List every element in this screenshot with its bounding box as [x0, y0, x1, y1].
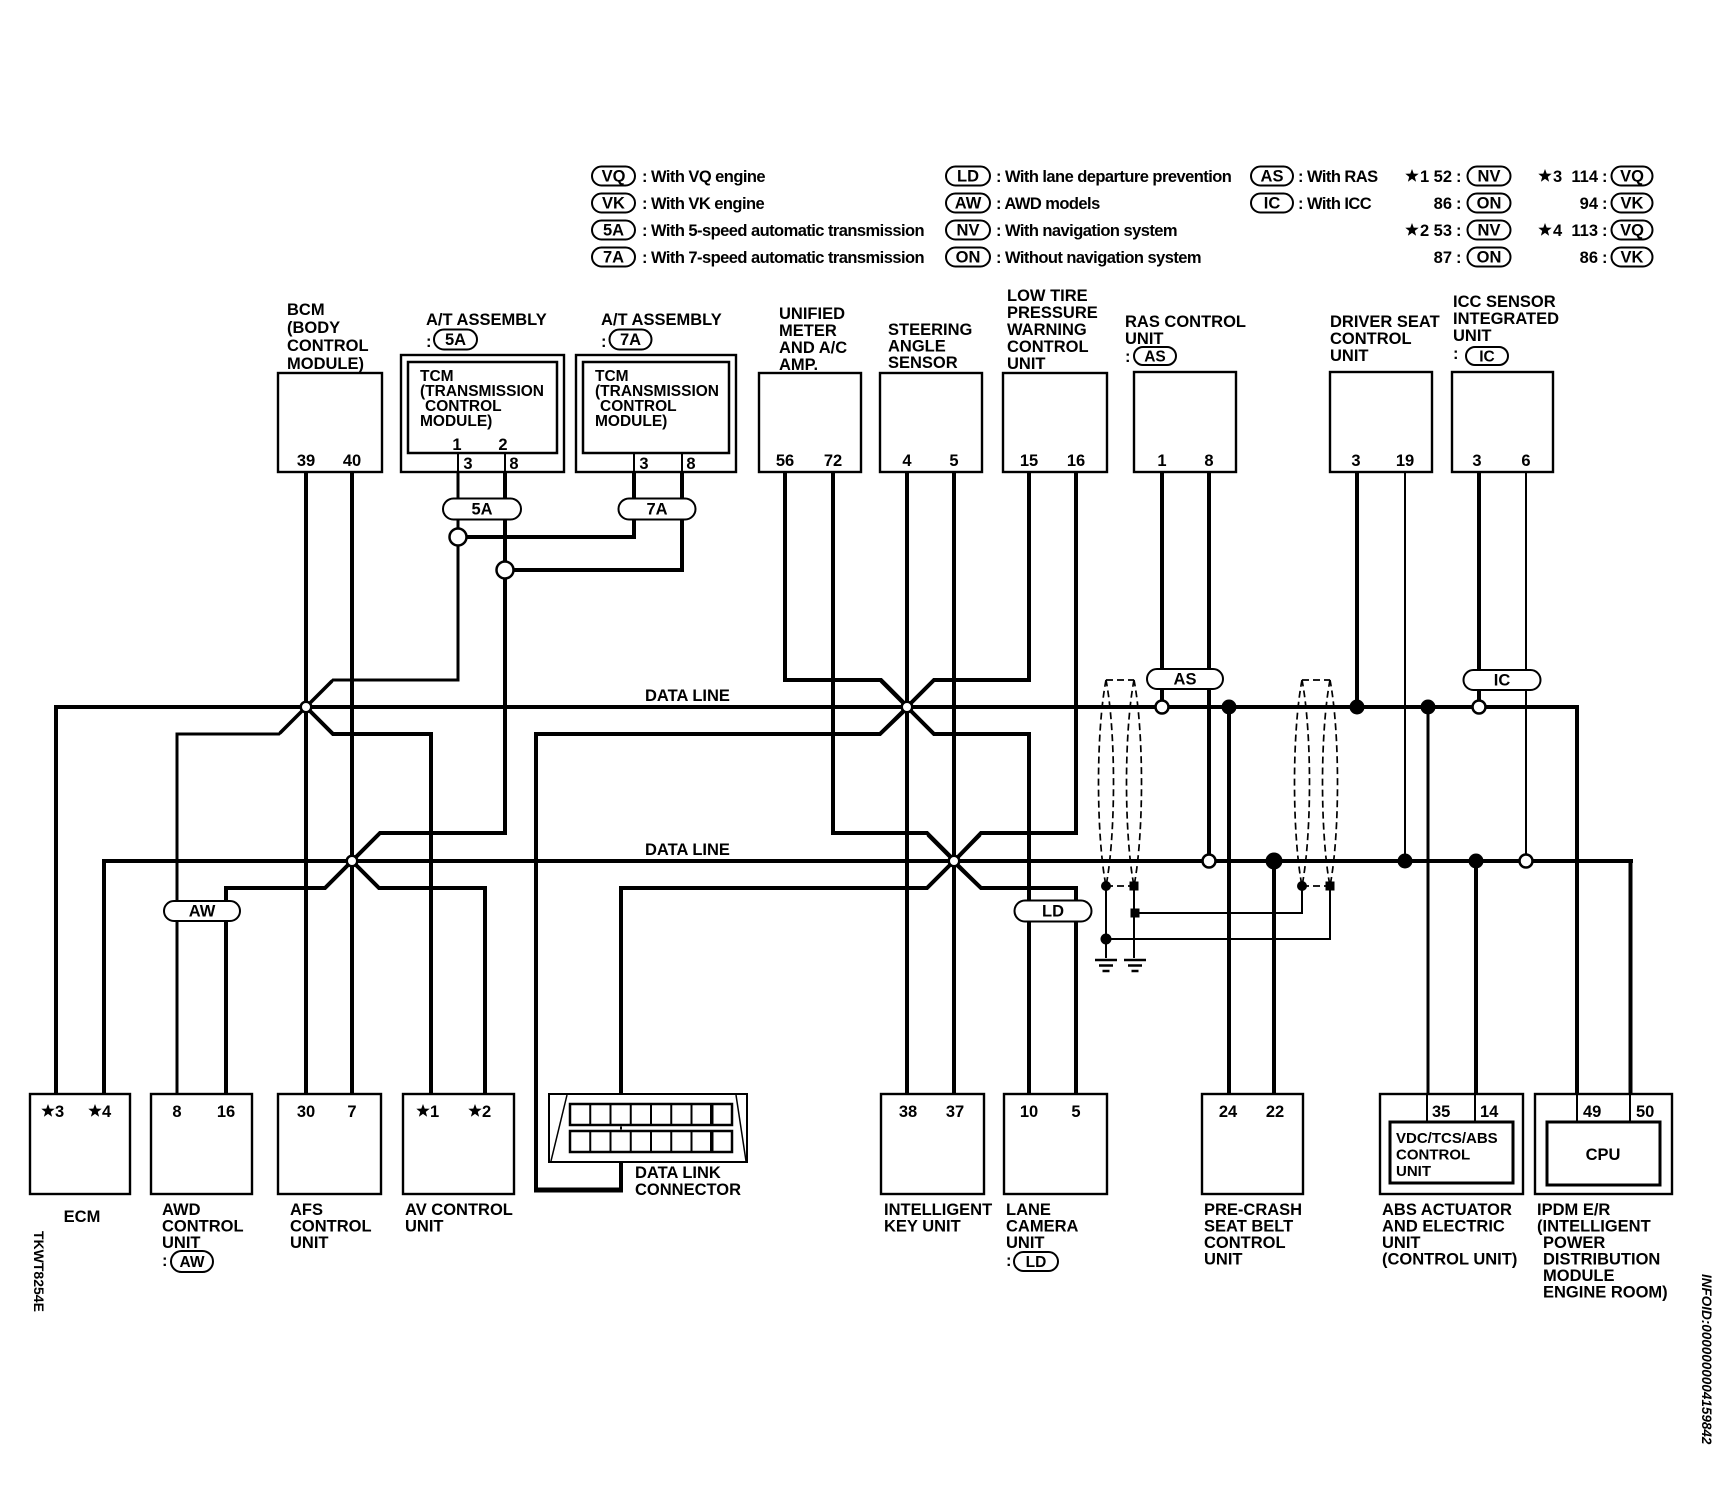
svg-text:NV: NV	[1478, 222, 1501, 240]
svg-text:2: 2	[498, 436, 507, 454]
component PRE-CRASH SEAT BELT CONTROL UNIT	[1202, 1094, 1303, 1269]
svg-text::: :	[1456, 222, 1462, 240]
svg-text:UNIT: UNIT	[162, 1234, 201, 1252]
svg-text:113: 113	[1571, 222, 1598, 240]
junction J2 on data line 2 (BCM/TCM/AWD/AV)	[326, 835, 378, 887]
svg-text:DATA LINE: DATA LINE	[645, 841, 730, 859]
legend note *3 114:VQ 94:VK	[1538, 167, 1652, 214]
svg-text:CONNECTOR: CONNECTOR	[635, 1181, 741, 1199]
component ICC SENSOR INTEGRATED UNIT :IC	[1452, 293, 1559, 472]
svg-text:8: 8	[1204, 452, 1213, 470]
wire J2 lower-left branch to AWD pin 16 (through AW oval)	[226, 863, 350, 1094]
wire J2 lower-right branch to AV pin *2	[354, 863, 485, 1094]
node ABS pin 14 solder dot on data line 2	[1469, 854, 1484, 869]
svg-text:3: 3	[55, 1103, 64, 1121]
svg-text:1: 1	[1157, 452, 1166, 470]
svg-text:38: 38	[899, 1103, 917, 1121]
wire data line 1 right end down to IPDM pin 49	[1575, 705, 1579, 1094]
svg-text:: With VQ engine: : With VQ engine	[642, 168, 765, 186]
wire RAS pin 8 through AS oval to data line 2	[1207, 472, 1211, 857]
wire STEERING ANGLE SENSOR pin 4 through J3 to INTELLIGENT KEY pin 38	[905, 472, 909, 1094]
component UNIFIED METER AND A/C AMP.	[759, 305, 861, 472]
svg-text:MODULE: MODULE	[1543, 1267, 1615, 1285]
wire DRIVER SEAT pin 3 to data line 1	[1355, 472, 1359, 707]
label DATA LINE (upper)	[645, 687, 730, 705]
svg-text:4: 4	[1553, 222, 1563, 240]
legend LD: With lane departure prevention	[946, 167, 1232, 187]
svg-text:ECM: ECM	[64, 1208, 101, 1226]
wire TCM(5A) pin 8 down through 5A oval to node N2	[503, 472, 507, 570]
svg-text:CONTROL: CONTROL	[162, 1218, 244, 1236]
wire node N1 down to J1 upper-right branch	[308, 537, 458, 705]
wire shield drain left-left to ground G1	[1105, 886, 1107, 958]
svg-text:AW: AW	[955, 195, 982, 213]
wire shield drain left-right to ground G2	[1133, 886, 1135, 958]
wire J1 lower-left branch to AWD pin 8 (through AW oval)	[177, 709, 304, 1094]
svg-text::: :	[1602, 249, 1608, 267]
svg-text:: With navigation system: : With navigation system	[996, 222, 1177, 240]
wire data line 1 tap down to PRE-CRASH pin 24	[1227, 707, 1231, 1094]
svg-text::: :	[426, 333, 432, 351]
node ICC pin 3 open junction on data line 1	[1473, 701, 1486, 714]
node PRE-CRASH pin 24 solder dot on data line 1	[1222, 700, 1237, 715]
node DRIVER SEAT pin 19 solder dot on data line 2	[1398, 854, 1413, 869]
svg-text:24: 24	[1219, 1103, 1238, 1121]
svg-text:UNIT: UNIT	[405, 1218, 444, 1236]
svg-text:CONTROL: CONTROL	[287, 337, 369, 355]
svg-text:5: 5	[949, 452, 958, 470]
svg-text:A/T ASSEMBLY: A/T ASSEMBLY	[426, 311, 547, 329]
legend ON: Without navigation system	[946, 248, 1201, 268]
svg-text:UNIT: UNIT	[290, 1234, 329, 1252]
node drain square joint at (1135,913)	[1131, 909, 1140, 918]
wire data line 2 left end down to ECM pin *4	[102, 859, 106, 1094]
svg-text:VK: VK	[602, 195, 625, 213]
svg-text:35: 35	[1432, 1103, 1450, 1121]
svg-text:LD: LD	[1026, 1254, 1047, 1271]
svg-text:2: 2	[1420, 222, 1429, 240]
svg-text:UNIT: UNIT	[1330, 347, 1369, 365]
svg-text:(INTELLIGENT: (INTELLIGENT	[1537, 1218, 1651, 1236]
svg-text:DATA LINE: DATA LINE	[645, 687, 730, 705]
svg-text:AS: AS	[1261, 168, 1284, 186]
oval AW on AWD control unit wires	[164, 901, 240, 921]
component IPDM E/R (CPU)	[1535, 1094, 1672, 1302]
svg-text:NV: NV	[1478, 168, 1501, 186]
svg-text:56: 56	[776, 452, 794, 470]
legend AS: With RAS	[1251, 167, 1378, 187]
svg-text:: AWD models: : AWD models	[996, 195, 1100, 213]
component AWD CONTROL UNIT :AW	[151, 1094, 252, 1272]
oval 5A on TCM(5A) wires	[443, 499, 521, 520]
svg-text:(BODY: (BODY	[287, 319, 340, 337]
wire TCM(5A) pin 3 down through 5A oval to node N1	[457, 472, 460, 537]
wire TCM(7A) pin 3 down through 7A oval, left to node N1	[458, 472, 634, 537]
svg-text:PRE-CRASH: PRE-CRASH	[1204, 1201, 1302, 1219]
svg-text:VQ: VQ	[602, 168, 626, 186]
svg-text:: With 5-speed automatic trans: : With 5-speed automatic transmission	[642, 222, 925, 240]
svg-text:WARNING: WARNING	[1007, 321, 1087, 339]
node RAS pin 8 open junction on data line 2	[1203, 855, 1216, 868]
component A/T ASSEMBLY 7A with TCM	[576, 311, 736, 473]
svg-text:UNIFIED: UNIFIED	[779, 305, 845, 323]
svg-text:52: 52	[1434, 168, 1452, 186]
svg-text:4: 4	[102, 1103, 112, 1121]
svg-text:ICC SENSOR: ICC SENSOR	[1453, 293, 1556, 311]
svg-text:UNIT: UNIT	[1204, 1251, 1243, 1269]
wire data line 2 tap down to PRE-CRASH pin 22	[1272, 861, 1276, 1094]
legend note *1 52:NV 86:ON	[1405, 167, 1510, 214]
svg-text:3: 3	[1472, 452, 1481, 470]
svg-text:(CONTROL UNIT): (CONTROL UNIT)	[1382, 1251, 1517, 1269]
svg-text:LD: LD	[1042, 903, 1064, 921]
component DRIVER SEAT CONTROL UNIT	[1330, 313, 1440, 472]
wire RAS pin 1 through AS oval to data line 1	[1160, 472, 1164, 703]
svg-text:16: 16	[1067, 452, 1085, 470]
svg-text:MODULE): MODULE)	[287, 355, 364, 373]
component ECM	[30, 1094, 130, 1226]
svg-text::: :	[1602, 168, 1608, 186]
svg-text:: With lane departure preventi: : With lane departure prevention	[996, 168, 1232, 186]
svg-text:RAS CONTROL: RAS CONTROL	[1125, 313, 1246, 331]
wire BCM pin 39 to junction J1 to AFS pin 30	[304, 472, 308, 1094]
svg-text:CPU: CPU	[1586, 1146, 1621, 1164]
component AFS CONTROL UNIT	[278, 1094, 381, 1252]
junction J4 on data line 2 (meter/steering/low-tire/DLC/lane)	[928, 835, 980, 887]
legend AW: AWD models	[946, 194, 1100, 214]
svg-text:VQ: VQ	[1620, 222, 1644, 240]
svg-text:4: 4	[902, 452, 912, 470]
svg-text:30: 30	[297, 1103, 315, 1121]
shield twisted-pair symbol (right pair, dashed)	[1295, 680, 1338, 886]
svg-text:MODULE): MODULE)	[420, 413, 492, 430]
node ABS pin 35 solder dot on data line 1	[1421, 700, 1436, 715]
oval AS on RAS control unit wires	[1147, 669, 1223, 689]
svg-text:6: 6	[1521, 452, 1530, 470]
svg-text:2: 2	[482, 1103, 491, 1121]
wire J3 lower-left branch to DATA LINK CONNECTOR (left leg)	[536, 710, 905, 1190]
wire node N2 down to J2 upper-right branch	[354, 570, 505, 859]
wire DRIVER SEAT pin 19 to data line 2	[1404, 472, 1406, 861]
svg-text:ON: ON	[1477, 195, 1502, 213]
svg-text:DRIVER SEAT: DRIVER SEAT	[1330, 313, 1440, 331]
wire STEERING ANGLE SENSOR pin 5 through J4 to INTELLIGENT KEY pin 37	[952, 472, 956, 1094]
wire ICC pin 3 through IC oval to data line 1	[1477, 472, 1481, 701]
wire DATA LINK CONNECTOR bottom U link	[534, 1188, 623, 1193]
svg-text:UNIT: UNIT	[1006, 1234, 1045, 1252]
svg-text:CONTROL: CONTROL	[1330, 330, 1412, 348]
svg-text:37: 37	[946, 1103, 964, 1121]
wire BCM pin 40 to junction J2 to AFS pin 7	[350, 472, 354, 1094]
svg-text:: With ICC: : With ICC	[1298, 195, 1372, 213]
wire TCM(7A) pin 8 down through 7A oval, left to node N2	[505, 472, 682, 570]
wire data line 1 left end down to ECM pin *3	[54, 705, 58, 1094]
node N1 (TCM pin 3 join)	[450, 529, 467, 546]
svg-text:5A: 5A	[445, 331, 466, 349]
wire UNIFIED METER pin 56 to J3 upper-left branch	[785, 472, 905, 704]
legend 5A: With 5-speed automatic transmission	[592, 221, 925, 241]
svg-text:DATA LINK: DATA LINK	[635, 1164, 721, 1182]
svg-text:KEY UNIT: KEY UNIT	[884, 1218, 961, 1236]
svg-text:7: 7	[347, 1103, 356, 1121]
svg-text:86: 86	[1434, 195, 1452, 213]
svg-text:IC: IC	[1264, 195, 1281, 213]
svg-text:A/T ASSEMBLY: A/T ASSEMBLY	[601, 311, 722, 329]
node N2 (TCM pin 8 join)	[497, 562, 514, 579]
wire J1 lower-right branch to AV pin *1	[308, 709, 431, 1094]
svg-text:86: 86	[1580, 249, 1598, 267]
svg-text:ENGINE ROOM): ENGINE ROOM)	[1543, 1284, 1668, 1302]
component ABS ACTUATOR AND ELECTRIC UNIT (VDC/TCS/ABS CONTROL UNIT)	[1380, 1094, 1523, 1269]
svg-text:: With RAS: : With RAS	[1298, 168, 1378, 186]
svg-text:72: 72	[824, 452, 842, 470]
svg-text:ON: ON	[1477, 249, 1502, 267]
svg-text:: With VK engine: : With VK engine	[642, 195, 765, 213]
svg-text:INTELLIGENT: INTELLIGENT	[884, 1201, 992, 1219]
label DATA LINE (lower)	[645, 841, 730, 859]
svg-text::: :	[1602, 222, 1608, 240]
svg-text:CONTROL: CONTROL	[290, 1218, 372, 1236]
wire LOW TIRE pin 15 to J3 upper-right branch	[910, 472, 1029, 704]
node PRE-CRASH pin 22 solder dot on data line 2	[1266, 853, 1283, 870]
svg-text:AS: AS	[1144, 349, 1166, 366]
svg-text:AW: AW	[180, 1254, 205, 1271]
svg-text:VDC/TCS/ABS: VDC/TCS/ABS	[1396, 1130, 1498, 1147]
svg-text:VK: VK	[1621, 195, 1644, 213]
legend note *4 113:VQ 86:VK	[1538, 221, 1652, 268]
component AV CONTROL UNIT	[403, 1094, 514, 1236]
svg-text:CAMERA: CAMERA	[1006, 1218, 1078, 1236]
wire J4 lower-right branch through LD oval to LANE CAMERA pin 5	[956, 864, 1076, 1094]
wire LOW TIRE pin 16 to J4 upper-right branch	[957, 472, 1076, 858]
svg-text:1: 1	[430, 1103, 439, 1121]
svg-text::: :	[1456, 195, 1462, 213]
svg-text:INFOID:0000000004159842: INFOID:0000000004159842	[1699, 1274, 1714, 1445]
svg-text:INTEGRATED: INTEGRATED	[1453, 310, 1559, 328]
shield drain terminal dot (left pair left)	[1101, 881, 1111, 891]
component BCM (BODY CONTROL MODULE)	[278, 301, 382, 472]
node ICC pin 6 open junction on data line 2	[1520, 855, 1533, 868]
svg-text::: :	[601, 333, 607, 351]
svg-text:AV CONTROL: AV CONTROL	[405, 1201, 513, 1219]
svg-text:CONTROL: CONTROL	[1007, 338, 1089, 356]
svg-text:MODULE): MODULE)	[595, 413, 667, 430]
svg-text:: With 7-speed automatic trans: : With 7-speed automatic transmission	[642, 249, 925, 267]
svg-text:VK: VK	[1621, 249, 1644, 267]
svg-text:114: 114	[1571, 168, 1598, 186]
svg-text:UNIT: UNIT	[1382, 1234, 1421, 1252]
junction J1 on data line 1 (BCM/TCM/AWD/AV)	[280, 681, 332, 733]
svg-text:AS: AS	[1174, 671, 1197, 689]
svg-text:94: 94	[1580, 195, 1599, 213]
svg-text:: Without navigation system: : Without navigation system	[996, 249, 1201, 267]
svg-text:10: 10	[1020, 1103, 1038, 1121]
oval 7A on TCM(7A) wires	[619, 499, 696, 520]
svg-text:IC: IC	[1494, 672, 1511, 690]
wire data line 2 right end down to IPDM pin 50	[1629, 859, 1633, 1094]
svg-text:VQ: VQ	[1620, 168, 1644, 186]
svg-text:87: 87	[1434, 249, 1452, 267]
svg-text:3: 3	[639, 455, 648, 473]
svg-text:ON: ON	[956, 249, 981, 267]
svg-text::: :	[1125, 348, 1131, 366]
svg-text::: :	[1006, 1252, 1012, 1270]
oval IC on ICC sensor wires	[1464, 670, 1541, 690]
svg-text:8: 8	[172, 1103, 181, 1121]
svg-text:UNIT: UNIT	[1396, 1163, 1431, 1180]
svg-text:7A: 7A	[603, 249, 624, 267]
label figure code TKWT8254E	[31, 1231, 47, 1312]
svg-text:3: 3	[1351, 452, 1360, 470]
svg-text:AMP.: AMP.	[779, 356, 818, 374]
wire J4 lower-left branch to DATA LINK CONNECTOR (right leg)	[621, 864, 951, 1190]
svg-text:LOW TIRE: LOW TIRE	[1007, 287, 1088, 305]
junction J3 on data line 1 (meter/steering/low-tire/DLC/lane)	[881, 681, 933, 733]
svg-text:39: 39	[297, 452, 315, 470]
component STEERING ANGLE SENSOR	[880, 321, 982, 472]
svg-text::: :	[1456, 249, 1462, 267]
svg-text:SENSOR: SENSOR	[888, 354, 958, 372]
svg-text:22: 22	[1266, 1103, 1284, 1121]
svg-text:1: 1	[1420, 168, 1429, 186]
svg-text:3: 3	[1553, 168, 1562, 186]
svg-text:8: 8	[686, 455, 695, 473]
svg-text:NV: NV	[957, 222, 980, 240]
svg-text::: :	[1456, 168, 1462, 186]
shield twisted-pair symbol (left pair, dashed)	[1099, 680, 1142, 886]
component LOW TIRE PRESSURE WARNING CONTROL UNIT	[1003, 287, 1107, 472]
svg-text:AWD: AWD	[162, 1201, 201, 1219]
wire UNIFIED METER pin 72 to J4 upper-left branch	[833, 472, 952, 858]
svg-text:IPDM E/R: IPDM E/R	[1537, 1201, 1610, 1219]
svg-text:3: 3	[463, 455, 472, 473]
component DATA LINK CONNECTOR	[549, 1094, 747, 1199]
svg-text:PRESSURE: PRESSURE	[1007, 304, 1098, 322]
component INTELLIGENT KEY UNIT	[881, 1094, 992, 1236]
svg-text:7A: 7A	[646, 501, 667, 519]
svg-text:1: 1	[452, 436, 461, 454]
ground G2	[1124, 960, 1146, 971]
svg-text:AW: AW	[189, 903, 216, 921]
svg-text:POWER: POWER	[1543, 1234, 1605, 1252]
svg-text:14: 14	[1480, 1103, 1499, 1121]
ground G1	[1095, 960, 1117, 971]
svg-text:15: 15	[1020, 452, 1038, 470]
wire shield drain right-left to G2 drain (via y=913)	[1134, 886, 1302, 913]
svg-text:AND A/C: AND A/C	[779, 339, 847, 357]
svg-text:AND ELECTRIC: AND ELECTRIC	[1382, 1218, 1505, 1236]
svg-text:UNIT: UNIT	[1453, 327, 1492, 345]
wire data line 2 tap down to ABS pin 14	[1474, 861, 1478, 1094]
legend note *2 53:NV 87:ON	[1405, 221, 1510, 268]
legend 7A: With 7-speed automatic transmission	[592, 248, 925, 268]
svg-text:40: 40	[343, 452, 361, 470]
node RAS pin 1 open junction on data line 1	[1156, 701, 1169, 714]
label INFOID	[1699, 1274, 1714, 1445]
svg-text:STEERING: STEERING	[888, 321, 972, 339]
svg-text:ABS ACTUATOR: ABS ACTUATOR	[1382, 1201, 1512, 1219]
wire data line 1 (CAN-H bus)	[54, 705, 1579, 709]
legend VQ: With VQ engine	[592, 167, 765, 187]
svg-text:AFS: AFS	[290, 1201, 323, 1219]
svg-text:7A: 7A	[620, 331, 641, 349]
wire data line 2 (CAN-L bus)	[102, 859, 1633, 863]
svg-text::: :	[1453, 345, 1459, 363]
wire ICC pin 6 through IC oval to data line 2	[1525, 472, 1527, 855]
svg-text:19: 19	[1396, 452, 1414, 470]
node DRIVER SEAT pin 3 solder dot on data line 1	[1350, 700, 1365, 715]
svg-text:UNIT: UNIT	[1125, 330, 1164, 348]
component LANE CAMERA UNIT :LD	[1004, 1094, 1107, 1271]
svg-text::: :	[1602, 195, 1608, 213]
shield drain terminal square (left pair right)	[1130, 882, 1139, 891]
wire shield drain right-right to G1 drain (via y=939)	[1106, 886, 1330, 939]
svg-text:CONTROL: CONTROL	[1204, 1234, 1286, 1252]
component A/T ASSEMBLY 5A with TCM	[401, 311, 564, 473]
svg-text:DISTRIBUTION: DISTRIBUTION	[1543, 1251, 1660, 1269]
node drain dot joint at (1106,939)	[1101, 934, 1112, 945]
legend NV: With navigation system	[946, 221, 1177, 241]
svg-text:50: 50	[1636, 1103, 1654, 1121]
svg-text:ANGLE: ANGLE	[888, 338, 946, 356]
svg-text:METER: METER	[779, 322, 837, 340]
wire data line 1 tap down to ABS pin 35	[1427, 707, 1430, 1094]
component RAS CONTROL UNIT :AS	[1125, 313, 1246, 472]
oval LD on lane camera wires	[1015, 901, 1092, 922]
wire J3 lower-right branch through LD oval to LANE CAMERA pin 10	[910, 710, 1029, 1094]
svg-text:5A: 5A	[471, 501, 492, 519]
shield drain terminal square (right pair right)	[1326, 882, 1335, 891]
svg-text:UNIT: UNIT	[1007, 355, 1046, 373]
svg-text:5: 5	[1071, 1103, 1080, 1121]
svg-text:LD: LD	[957, 168, 979, 186]
svg-text:5A: 5A	[603, 222, 624, 240]
svg-text:LANE: LANE	[1006, 1201, 1051, 1219]
svg-text:IC: IC	[1479, 349, 1495, 366]
legend VK: With VK engine	[592, 194, 765, 214]
svg-text::: :	[162, 1252, 168, 1270]
svg-text:49: 49	[1583, 1103, 1601, 1121]
svg-text:8: 8	[509, 455, 518, 473]
svg-text:CONTROL: CONTROL	[1396, 1147, 1470, 1164]
svg-text:16: 16	[217, 1103, 235, 1121]
svg-text:53: 53	[1434, 222, 1452, 240]
svg-text:BCM: BCM	[287, 301, 325, 319]
svg-text:TKWT8254E: TKWT8254E	[31, 1231, 47, 1312]
shield drain terminal dot (right pair left)	[1297, 881, 1307, 891]
legend IC: With ICC	[1251, 194, 1372, 214]
svg-text:SEAT BELT: SEAT BELT	[1204, 1218, 1293, 1236]
